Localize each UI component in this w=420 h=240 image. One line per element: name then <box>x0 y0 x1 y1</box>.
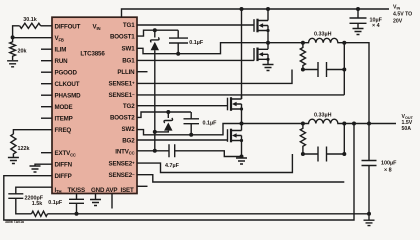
node INTVCC rail D2 junction <box>153 130 157 134</box>
inductor L1 0.33uH <box>303 32 344 43</box>
svg-text:SENSE1+: SENSE1+ <box>108 81 135 88</box>
svg-text:BOOST2: BOOST2 <box>110 114 135 121</box>
svg-text:DIFFP: DIFFP <box>55 173 72 180</box>
wire BOOST2 <box>137 112 191 117</box>
svg-text:TG1: TG1 <box>123 22 135 29</box>
ground for DIFFN <box>30 166 41 172</box>
svg-text:0.1µF: 0.1µF <box>48 200 63 206</box>
svg-text:SENSE2+: SENSE2+ <box>108 161 135 168</box>
wire L1 output down to sense <box>343 43 345 95</box>
transistor Q1 top FET phase 1 <box>254 9 270 32</box>
diode D1 schottky BOOST1 <box>151 30 160 50</box>
wire DIFFP remote sense <box>4 124 354 221</box>
inductor L2 0.33uH <box>303 113 344 124</box>
svg-text:50A: 50A <box>402 126 412 132</box>
svg-text:× 8: × 8 <box>384 168 392 174</box>
wire BG1 to M2 gate <box>137 59 254 61</box>
wire phase 1 output to VOUT rail <box>344 43 369 124</box>
capacitor C9 100uF x8 <box>362 124 398 220</box>
svg-text:PGOOD: PGOOD <box>55 70 78 77</box>
node TK/SS cap junction <box>75 212 79 216</box>
svg-text:RUN: RUN <box>55 58 69 65</box>
capacitor C6 0.1uF BOOST2 <box>184 112 218 135</box>
ground for 10uF <box>353 29 364 35</box>
capacitor C5 DCR sense phase 1 <box>303 62 344 77</box>
svg-text:0.1µF: 0.1µF <box>189 40 204 46</box>
resistor R3 122k <box>11 134 30 158</box>
wire DIFFN to ground <box>35 164 52 165</box>
svg-text:FREQ: FREQ <box>55 127 72 134</box>
wire SENSE2+ <box>137 154 292 173</box>
wire comp ground bus <box>48 213 370 215</box>
svg-text:0.33µH: 0.33µH <box>314 32 332 38</box>
label VIN terminal <box>393 5 412 25</box>
wire CLKOUT stub <box>41 83 52 85</box>
transistor Q2 bottom FET phase 1 <box>254 43 270 64</box>
svg-text:1.5V: 1.5V <box>402 120 413 126</box>
svg-text:1.5k: 1.5k <box>32 201 43 207</box>
node SW1 switch node <box>266 41 270 45</box>
wire SW2 <box>137 124 303 135</box>
svg-text:LTC3856: LTC3856 <box>80 51 105 58</box>
svg-text:GND: GND <box>91 187 105 194</box>
node SW2 switch node <box>240 122 244 126</box>
transistor Q4 bottom FET phase 2 <box>228 124 244 157</box>
svg-text:PLLIN: PLLIN <box>117 69 135 76</box>
capacitor C1 2200pF <box>8 194 43 202</box>
wire Q1 source to SW node <box>267 31 269 43</box>
wire AVP stub <box>111 194 113 209</box>
wire PGOOD stub <box>41 71 52 73</box>
wire ITH to compensation <box>16 187 52 194</box>
svg-text:PHASMD: PHASMD <box>55 93 82 100</box>
node L1 output junction <box>342 41 346 45</box>
svg-text:122k: 122k <box>18 146 30 152</box>
node L2 output junction <box>342 122 346 126</box>
svg-text:BOOST1: BOOST1 <box>110 34 135 41</box>
node DCR cap right junction phase 1 <box>342 68 346 72</box>
capacitor C2 0.1uF TK/SS <box>48 194 84 214</box>
wire EXTVCC stub <box>41 152 52 154</box>
capacitor C8 DCR sense phase 2 <box>303 147 344 162</box>
node DCR RC junction phase 2 <box>301 152 305 156</box>
capacitor C4 0.1uF BOOST1 <box>169 30 204 54</box>
svg-text:VIN: VIN <box>393 5 401 11</box>
node DCR RC junction phase 1 <box>301 68 305 72</box>
wire SENSE1- <box>137 94 344 96</box>
wire SW1 <box>137 43 303 54</box>
node L1 input junction <box>301 41 305 45</box>
wire RUN stub <box>41 60 52 62</box>
wire 2200pF to comp rail <box>16 198 32 214</box>
wire ILIM stub <box>41 48 52 50</box>
label VOUT terminal <box>402 114 414 132</box>
wire 30.1k to VFB node <box>13 26 20 37</box>
svg-text:ITEMP: ITEMP <box>55 116 73 123</box>
svg-text:SENSE2−: SENSE2− <box>108 172 135 179</box>
wire L2 output down to sense <box>343 124 345 155</box>
svg-text:BG1: BG1 <box>122 58 135 65</box>
svg-text:0.1µF: 0.1µF <box>203 121 218 127</box>
diode D2 schottky BOOST2 <box>164 112 173 131</box>
node 10uF junction <box>356 7 360 11</box>
ground for 122k <box>8 158 19 164</box>
resistor R5 DCR sense phase 1 <box>300 43 305 70</box>
resistor R2 20k <box>10 37 27 60</box>
svg-text:BG2: BG2 <box>122 138 135 145</box>
wire MODE stub <box>41 106 52 108</box>
svg-text:TK/SS: TK/SS <box>68 187 85 194</box>
svg-text:MODE: MODE <box>55 104 73 111</box>
resistor R1 30.1k <box>20 17 41 28</box>
svg-text:100µF: 100µF <box>381 161 397 167</box>
node INTVCC rail bottom junction <box>153 149 157 153</box>
svg-text:SW2: SW2 <box>122 126 136 133</box>
transistor Q3 top FET phase 2 <box>228 95 244 111</box>
svg-text:DIFFOUT: DIFFOUT <box>55 24 81 31</box>
capacitor C7 4.7uF INTVCC <box>165 144 242 169</box>
wire SENSE2- <box>137 175 344 182</box>
svg-text:CLKOUT: CLKOUT <box>55 81 80 88</box>
ground for Q2 source <box>263 65 274 71</box>
ground for output <box>364 220 375 225</box>
svg-text:ILIM: ILIM <box>55 47 67 54</box>
wire TG1 to M1 gate <box>137 24 254 26</box>
ground for 20k <box>7 61 18 67</box>
wire Q3 source to SW2 node <box>241 109 243 124</box>
svg-text:4.5V TO: 4.5V TO <box>393 12 412 18</box>
node BOOST2 diode junction <box>166 110 170 114</box>
svg-text:SW1: SW1 <box>122 46 136 53</box>
svg-text:ISET: ISET <box>121 187 135 194</box>
wire ISET stub <box>137 185 148 187</box>
svg-text:20k: 20k <box>18 48 27 54</box>
wire VIN pin to rail <box>122 9 390 17</box>
node VIN feed junction <box>240 7 244 11</box>
wire DIFFOUT to 30.1k <box>41 25 52 27</box>
node BOOST1 diode junction <box>153 28 157 32</box>
op-amp U1 LTC3856 IC body <box>52 17 137 193</box>
wire INTVCC rail from D1 anode <box>154 50 156 151</box>
svg-text:4.7µF: 4.7µF <box>165 163 180 169</box>
ground for Q4 source <box>236 158 247 164</box>
wire TG2 to M3 gate <box>137 105 227 107</box>
capacitor C3 10uF x4 <box>350 9 383 29</box>
wire D2 anode to INTVCC rail <box>155 131 169 132</box>
node output ground junction <box>367 212 371 216</box>
node L2 input junction <box>301 122 305 126</box>
resistor R6 DCR sense phase 2 <box>300 124 305 155</box>
node DIFFP tap on VOUT <box>352 122 356 126</box>
svg-text:SENSE1−: SENSE1− <box>108 92 135 99</box>
node SW2 cap junction <box>189 133 193 137</box>
svg-text:TG2: TG2 <box>123 103 135 110</box>
node VFB junction <box>11 35 15 39</box>
svg-text:× 4: × 4 <box>372 23 380 29</box>
svg-text:DIFFN: DIFFN <box>55 162 73 169</box>
wire BOOST1 <box>137 30 178 36</box>
svg-text:30.1k: 30.1k <box>23 17 37 23</box>
wire FREQ to 122k <box>13 130 52 134</box>
svg-text:AVP: AVP <box>106 187 118 194</box>
node M1 drain junction <box>266 7 270 11</box>
wire PHASMD stub <box>41 94 52 96</box>
svg-text:0.33µH: 0.33µH <box>314 113 332 119</box>
wire SENSE1+ <box>137 70 292 84</box>
wire VIN feed to Q3 drain <box>241 9 243 99</box>
svg-text:3856 TA01a: 3856 TA01a <box>5 220 24 224</box>
wire VFB pin <box>13 37 52 39</box>
wire GND pin stub <box>95 194 97 200</box>
wire ITEMP stub <box>41 117 52 119</box>
ground for GND pin <box>90 200 101 206</box>
wire BG2 to M4 gate <box>137 139 228 141</box>
node VOUT rail junction <box>367 122 371 126</box>
node DCR cap right junction phase 2 <box>342 152 346 156</box>
node Q4 source ground junction <box>240 155 244 159</box>
resistor R4 1.5k <box>32 201 48 216</box>
wire PLLIN stub <box>137 71 148 73</box>
wire INTVCC pin <box>137 150 169 152</box>
node SW1 cap junction <box>176 52 180 56</box>
svg-text:20V: 20V <box>393 19 403 25</box>
wire VOUT line <box>344 123 396 125</box>
